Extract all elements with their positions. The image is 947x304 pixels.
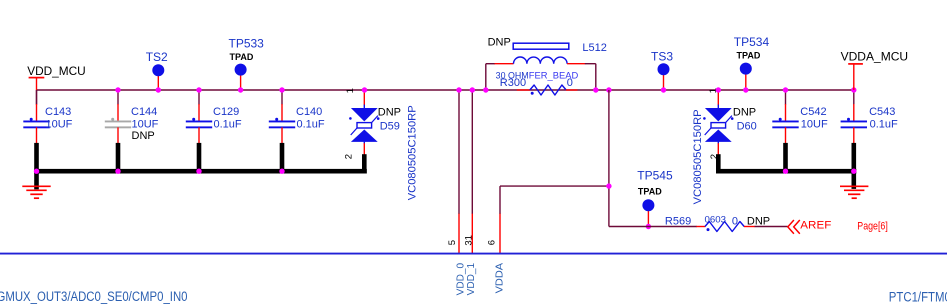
svg-text:R569: R569: [665, 216, 691, 228]
svg-text:10UF: 10UF: [801, 118, 828, 130]
capacitor C542: [772, 90, 828, 173]
test point TP533: [229, 36, 265, 90]
test point TS2: [146, 50, 168, 90]
svg-text:AREF: AREF: [800, 220, 831, 232]
capacitor C143: [23, 90, 72, 189]
svg-text:0.1uF: 0.1uF: [214, 118, 242, 130]
junction on ground bus x=199.0: [196, 169, 201, 174]
junction on ground bus x=118.0: [115, 169, 120, 174]
svg-text:L512: L512: [582, 42, 606, 54]
svg-text:C140: C140: [296, 106, 322, 118]
svg-text:DNP: DNP: [132, 130, 155, 142]
svg-text:TPAD: TPAD: [638, 187, 662, 197]
svg-text:C143: C143: [45, 106, 71, 118]
svg-text:10UF: 10UF: [132, 118, 159, 130]
svg-text:VC080505C150RP: VC080505C150RP: [692, 109, 704, 204]
wire VDDA branch to MCU pin 6: [500, 90, 609, 254]
wire main VDD bus: [37, 89, 854, 91]
svg-text:0603: 0603: [705, 214, 727, 225]
svg-text:DNP: DNP: [733, 106, 756, 118]
svg-text:0.1uF: 0.1uF: [297, 118, 325, 130]
resistor R300: [500, 77, 578, 95]
junction on VDD bus x=158.3: [156, 87, 161, 92]
capacitor C140: [269, 90, 325, 173]
junction C542 gnd: [783, 169, 788, 174]
resistor R569: [609, 214, 788, 231]
svg-text:TP545: TP545: [637, 169, 673, 183]
svg-text:D59: D59: [380, 121, 400, 133]
junction x=485.8: [483, 87, 488, 92]
junction x=472.3: [470, 87, 475, 92]
svg-text:TS2: TS2: [146, 50, 168, 64]
test point TP545: [637, 169, 673, 227]
wire to MCU pin 5: [458, 90, 460, 254]
svg-text:31: 31: [463, 235, 474, 246]
ground symbol right: [840, 186, 868, 198]
svg-text:1: 1: [345, 88, 356, 93]
test point TP534: [734, 35, 770, 90]
junction D60: [716, 87, 721, 92]
off-page connector AREF: [788, 220, 832, 234]
junction VDDA_MCU node: [851, 87, 856, 92]
TVS diode D59: [344, 88, 419, 200]
ground symbol left: [22, 186, 50, 198]
svg-text:2: 2: [344, 154, 355, 159]
svg-text:C144: C144: [131, 106, 157, 118]
svg-text:GMUX_OUT3/ADC0_SE0/CMP0_IN0: GMUX_OUT3/ADC0_SE0/CMP0_IN0: [0, 289, 188, 304]
svg-text:VDDA: VDDA: [493, 263, 505, 294]
svg-text:VDD_1: VDD_1: [465, 263, 477, 296]
svg-text:DNP: DNP: [747, 215, 770, 227]
svg-text:TPAD: TPAD: [737, 51, 761, 61]
junction x=608.9: [606, 87, 611, 92]
junction VDDA tee: [606, 183, 611, 188]
ground bus (thick) left: [34, 169, 367, 174]
svg-text:2: 2: [709, 154, 720, 159]
wire to MCU pin 31: [471, 90, 473, 254]
svg-text:Page[6]: Page[6]: [857, 221, 888, 233]
svg-text:R300: R300: [500, 77, 526, 89]
svg-text:C542: C542: [800, 106, 826, 118]
svg-text:0: 0: [732, 215, 738, 227]
power flag VDDA_MCU: [841, 50, 909, 90]
svg-text:DNP: DNP: [488, 36, 511, 48]
svg-text:5: 5: [447, 240, 458, 245]
ferrite bead L512: [486, 36, 607, 90]
svg-text:TPAD: TPAD: [230, 52, 254, 62]
svg-text:C129: C129: [213, 106, 239, 118]
junction on ground bus x=282.0: [279, 169, 284, 174]
svg-text:10UF: 10UF: [46, 118, 73, 130]
svg-text:0: 0: [567, 77, 573, 89]
junction TP534: [743, 87, 748, 92]
junction x=595.8: [593, 87, 598, 92]
junction TS3: [661, 87, 666, 92]
svg-text:PTC1/FTM0: PTC1/FTM0: [889, 289, 947, 304]
svg-text:C543: C543: [869, 106, 895, 118]
capacitor C144: [105, 90, 159, 173]
svg-text:VDDA_MCU: VDDA_MCU: [841, 50, 909, 64]
svg-text:DNP: DNP: [378, 106, 401, 118]
test point TS3: [651, 50, 673, 90]
junction TP545: [646, 224, 651, 229]
capacitor C129: [186, 90, 242, 173]
TVS diode D60: [692, 88, 757, 204]
svg-text:0.1uF: 0.1uF: [870, 118, 898, 130]
junction on VDD bus x=282.0: [279, 87, 284, 92]
capacitor C543: [841, 90, 898, 189]
svg-text:D60: D60: [737, 121, 757, 133]
junction on VDD bus x=240.6: [238, 87, 243, 92]
ground bus (thick) right: [716, 169, 856, 174]
wire VDD corner to C143: [36, 90, 38, 105]
junction C542 top: [783, 87, 788, 92]
power flag VDD_MCU: [27, 64, 85, 90]
junction x=459: [456, 87, 461, 92]
junction on VDD bus x=118.0: [115, 87, 120, 92]
svg-text:TP533: TP533: [229, 36, 265, 50]
junction on ground bus x=36.5: [34, 169, 39, 174]
junction right gnd: [851, 169, 856, 174]
svg-text:VC080505C150RP: VC080505C150RP: [406, 105, 418, 200]
svg-text:6: 6: [487, 240, 498, 245]
MCU symbol outline: [0, 253, 947, 255]
svg-text:TP534: TP534: [734, 35, 770, 49]
junction on VDD bus x=364.5: [362, 87, 367, 92]
svg-text:TS3: TS3: [651, 50, 673, 64]
svg-text:VDD_MCU: VDD_MCU: [27, 64, 85, 78]
junction on VDD bus x=199.0: [196, 87, 201, 92]
